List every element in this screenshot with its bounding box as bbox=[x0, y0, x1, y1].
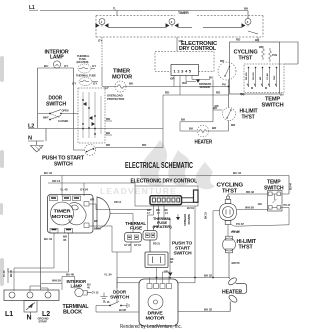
thermal fuse (heater) symbol (bottom) bbox=[143, 231, 157, 241]
svg-text:MOTOR: MOTOR bbox=[52, 214, 74, 219]
wire BK32 rail (bottom) bbox=[117, 277, 229, 279]
resistor symbols in cycling box bbox=[262, 46, 272, 62]
ground strap bbox=[24, 301, 37, 315]
svg-text:THERMAL FUSE: THERMAL FUSE bbox=[76, 74, 96, 78]
svg-text:MOTOR: MOTOR bbox=[146, 316, 166, 321]
svg-text:BR: BR bbox=[94, 219, 98, 223]
svg-text:PROTECTOR: PROTECTOR bbox=[107, 97, 125, 101]
wires below edc terminals bbox=[174, 76, 229, 96]
svg-text:WH-RD: WH-RD bbox=[253, 72, 255, 80]
svg-text:DRYNESS: DRYNESS bbox=[183, 214, 187, 226]
svg-text:TL: TL bbox=[113, 7, 116, 11]
svg-text:Rendered by LeadVenture, Inc.: Rendered by LeadVenture, Inc. bbox=[120, 324, 182, 330]
terminal L1 bbox=[9, 292, 15, 298]
wire RD edc-down bbox=[163, 95, 223, 148]
svg-text:SWITCH: SWITCH bbox=[174, 251, 192, 256]
svg-text:BU: BU bbox=[280, 93, 284, 97]
svg-text:BU 19: BU 19 bbox=[187, 206, 195, 210]
svg-text:TIMER: TIMER bbox=[54, 209, 72, 214]
svg-text:35: 35 bbox=[63, 238, 67, 242]
svg-text:MOTOR: MOTOR bbox=[112, 75, 133, 81]
svg-text:YL 43: YL 43 bbox=[2, 270, 6, 277]
terminal N bbox=[27, 292, 33, 298]
wire BU drop from contact 3 bbox=[248, 31, 258, 42]
svg-text:12345: 12345 bbox=[174, 69, 193, 74]
svg-text:PU: PU bbox=[222, 83, 226, 87]
temp switch box (bottom) bbox=[268, 191, 283, 212]
timer cam shape bbox=[69, 203, 86, 225]
cycling thst symbol (top) bbox=[218, 62, 236, 80]
svg-text:HEATER: HEATER bbox=[222, 290, 243, 296]
svg-text:BK 35: BK 35 bbox=[9, 269, 13, 277]
svg-text:TAN: TAN bbox=[272, 53, 277, 57]
wires cycling (bottom) bbox=[228, 194, 289, 237]
wire OR drop from contact 2 bbox=[176, 37, 178, 51]
door switch symbol (bottom) bbox=[102, 302, 129, 309]
timer motor circle (bottom) bbox=[51, 202, 74, 225]
svg-text:TH'ST: TH'ST bbox=[242, 115, 255, 121]
svg-text:WH 29: WH 29 bbox=[52, 279, 61, 283]
svg-text:SWITCH: SWITCH bbox=[262, 103, 285, 109]
lamp symbol (top) bbox=[53, 61, 61, 68]
svg-text:GY: GY bbox=[64, 64, 68, 68]
svg-text:N: N bbox=[28, 136, 32, 142]
svg-text:TH'ST: TH'ST bbox=[239, 56, 253, 62]
timer contact arrows and bus bbox=[96, 23, 246, 27]
svg-text:STRAP: STRAP bbox=[39, 320, 48, 324]
cycling thermostat box (top) bbox=[230, 42, 299, 94]
svg-text:TH'ST: TH'ST bbox=[222, 189, 237, 195]
timer internal contacts bbox=[83, 92, 101, 138]
wires edc down to fuses bbox=[148, 206, 171, 273]
door switch contacts (top) bbox=[38, 110, 78, 120]
wire RD exits timer box bbox=[105, 120, 112, 122]
svg-text:YL 34: YL 34 bbox=[104, 273, 112, 277]
svg-text:WH: WH bbox=[90, 198, 94, 202]
timer terminals top bbox=[50, 196, 90, 233]
svg-text:YL 16: YL 16 bbox=[103, 300, 110, 304]
wire BU19 down right of edc bbox=[194, 206, 196, 278]
svg-text:N: N bbox=[27, 315, 32, 322]
svg-text:BK 32: BK 32 bbox=[204, 274, 212, 278]
thermal fuse symbol (bottom) bbox=[125, 233, 142, 243]
svg-text:FUSE: FUSE bbox=[130, 226, 142, 231]
svg-text:BR: BR bbox=[260, 76, 262, 80]
door switch enclosure (top) bbox=[38, 68, 74, 128]
svg-text:ELECTRONIC DRY CONTROL: ELECTRONIC DRY CONTROL bbox=[131, 179, 198, 185]
drive motor connector row bbox=[147, 284, 172, 289]
hi-limit thst symbol (bottom) bbox=[223, 236, 236, 277]
svg-text:BK 15: BK 15 bbox=[204, 211, 208, 219]
electronic dry control box (dashed, top) bbox=[155, 52, 214, 72]
svg-text:LEADVENTURE: LEADVENTURE bbox=[100, 186, 177, 196]
svg-text:TH'ST: TH'ST bbox=[239, 245, 253, 251]
hi-limit thst symbol (top) bbox=[223, 87, 236, 121]
timer motor / overload symbol (top) bbox=[115, 81, 126, 92]
thermal fuse symbol (top) bbox=[79, 78, 92, 86]
svg-text:WH 38: WH 38 bbox=[245, 206, 254, 210]
svg-text:BU 44: BU 44 bbox=[233, 171, 241, 175]
svg-text:PU 36: PU 36 bbox=[232, 230, 240, 234]
svg-text:(HEATER): (HEATER) bbox=[153, 225, 173, 229]
svg-text:YL 43: YL 43 bbox=[60, 188, 68, 192]
svg-text:OPEN: OPEN bbox=[62, 109, 69, 113]
wire N bbox=[28, 129, 46, 146]
timer contact 2 bbox=[169, 19, 175, 27]
timer contact box (dashed) bbox=[96, 16, 263, 38]
drive motor circle bbox=[148, 295, 163, 310]
watermark flame logo bbox=[140, 140, 215, 189]
svg-text:GY 12: GY 12 bbox=[92, 291, 99, 295]
svg-text:WHT: WHT bbox=[43, 116, 49, 120]
edc terminal strip 1 2 3 4 5 bbox=[171, 65, 199, 76]
wire BK15 to cycling bbox=[213, 211, 220, 278]
svg-text:OR 14: OR 14 bbox=[114, 200, 122, 204]
drive motor box (bottom) bbox=[139, 279, 178, 326]
svg-text:DRY CONTROL: DRY CONTROL bbox=[179, 46, 216, 52]
timer cam bracket bbox=[97, 197, 110, 229]
svg-text:RD 42: RD 42 bbox=[246, 190, 254, 194]
terminal block bar bbox=[4, 290, 59, 301]
svg-text:BU 44: BU 44 bbox=[44, 237, 52, 241]
wire contact bus bbox=[109, 27, 242, 29]
svg-text:CLOSED: CLOSED bbox=[58, 119, 68, 123]
svg-text:SWITCH: SWITCH bbox=[110, 295, 129, 300]
edge smudges bbox=[0, 56, 4, 286]
terminal L2 bbox=[45, 292, 51, 298]
lamp ground bbox=[101, 293, 108, 301]
wires timer down-left bbox=[54, 243, 69, 268]
wire heater bottom to motor bbox=[178, 311, 230, 313]
svg-text:BU: BU bbox=[44, 64, 48, 68]
svg-text:RD 31: RD 31 bbox=[153, 242, 161, 246]
thermal fuse heater symbol (top) bbox=[78, 64, 91, 73]
timer contact 3 bbox=[245, 19, 251, 27]
svg-text:SENSOR: SENSOR bbox=[187, 214, 191, 225]
timer internal switch box (dashed, top) bbox=[78, 88, 105, 143]
svg-text:SENSOR: SENSOR bbox=[200, 85, 211, 89]
svg-text:GY: GY bbox=[98, 39, 102, 43]
svg-text:BU 44: BU 44 bbox=[44, 171, 52, 175]
svg-text:HEATER: HEATER bbox=[195, 140, 213, 146]
interior lamp symbol (bottom) bbox=[75, 288, 91, 296]
svg-text:PU 37: PU 37 bbox=[236, 222, 244, 226]
svg-text:ELECTRICAL SCHEMATIC: ELECTRICAL SCHEMATIC bbox=[125, 161, 193, 170]
dryness sensor (bottom) bbox=[177, 214, 179, 217]
svg-text:TIMER: TIMER bbox=[178, 11, 189, 15]
heater symbol (top) bbox=[197, 121, 228, 137]
svg-text:RD-WH: RD-WH bbox=[246, 72, 248, 80]
push to start symbol (bottom) bbox=[145, 252, 168, 268]
svg-text:OR 14: OR 14 bbox=[52, 179, 61, 183]
svg-text:BU 44: BU 44 bbox=[289, 182, 293, 190]
svg-text:GY: GY bbox=[72, 82, 76, 86]
wire GY drop from contact 1 bbox=[101, 37, 103, 68]
node L1 (top) bbox=[40, 11, 248, 19]
svg-text:L1: L1 bbox=[5, 311, 13, 318]
wire BU44 main top rail (bottom) bbox=[41, 176, 289, 195]
svg-text:LAMP: LAMP bbox=[71, 284, 83, 289]
svg-text:GY-BK: GY-BK bbox=[267, 73, 269, 80]
svg-text:GY 12: GY 12 bbox=[134, 243, 141, 247]
svg-text:SWITCH: SWITCH bbox=[46, 102, 67, 108]
wire GY fuse junctions bbox=[91, 68, 102, 86]
ground (top) bbox=[31, 146, 44, 153]
push to start symbol (top) bbox=[74, 129, 164, 156]
svg-text:BLOCK: BLOCK bbox=[63, 310, 83, 316]
edc connector bar (bottom) bbox=[150, 190, 198, 205]
svg-text:10A: 10A bbox=[258, 202, 263, 206]
svg-text:GY: GY bbox=[92, 64, 96, 68]
svg-text:BU 28: BU 28 bbox=[119, 308, 127, 312]
wire motor to cycling bbox=[102, 80, 229, 87]
svg-text:WH: WH bbox=[259, 45, 263, 49]
svg-text:OR: OR bbox=[164, 270, 168, 274]
svg-text:BU: BU bbox=[255, 38, 259, 42]
svg-text:PU 37: PU 37 bbox=[284, 203, 291, 207]
svg-text:BK 32: BK 32 bbox=[204, 308, 212, 312]
svg-text:SWITCH: SWITCH bbox=[54, 162, 73, 168]
svg-text:BR 55: BR 55 bbox=[232, 261, 240, 265]
cycling thst symbol (bottom) bbox=[220, 196, 237, 225]
svg-text:(HEATER): (HEATER) bbox=[77, 60, 89, 64]
svg-text:BU 40: BU 40 bbox=[66, 273, 74, 277]
svg-text:GY: GY bbox=[93, 82, 97, 86]
wires into drive motor top bbox=[150, 272, 171, 284]
wire L2 to lamp riser bbox=[30, 286, 48, 292]
wire BK exits timer box bbox=[105, 134, 112, 136]
svg-text:BU: BU bbox=[209, 76, 213, 80]
timer box (bottom) bbox=[48, 195, 94, 234]
wire L2 rail bbox=[28, 128, 163, 130]
svg-text:BR 15: BR 15 bbox=[94, 227, 102, 231]
heater symbol (bottom) bbox=[227, 276, 246, 311]
svg-text:PU: PU bbox=[240, 92, 244, 96]
svg-text:GY 26: GY 26 bbox=[124, 243, 131, 247]
temp switch contacts (top) bbox=[249, 67, 277, 87]
svg-text:LAMP: LAMP bbox=[50, 55, 64, 61]
wire TL tick bbox=[116, 11, 118, 16]
wire from push start down bbox=[150, 240, 157, 278]
dryness sensor (top) bbox=[186, 79, 198, 82]
edc outline (bottom) bbox=[135, 186, 198, 206]
temp switch box (dashed, top) bbox=[244, 64, 284, 93]
wire left rail (bottom) bbox=[40, 176, 42, 291]
timer contact 1 bbox=[99, 19, 105, 27]
svg-text:TAN: TAN bbox=[273, 75, 276, 80]
